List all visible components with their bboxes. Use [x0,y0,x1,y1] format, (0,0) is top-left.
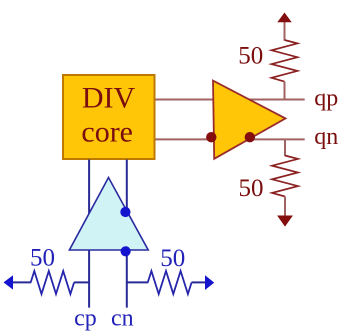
junction dot on qn under buffer [245,132,255,142]
svg-text:core: core [81,116,133,149]
svg-text:50: 50 [238,43,263,70]
svg-text:cn: cn [111,306,134,332]
resistor R1 (50 ohm pull-up on qp) [272,22,298,100]
junction dot on qn at buffer input [206,132,216,142]
resistor R2 (50 ohm pull-down on qn) [272,139,298,216]
junction dot on cn at buffer edge [120,207,130,217]
supply arrow (up) on R1 [277,13,291,23]
wire qn output net [156,138,305,140]
wire cn input net [126,160,128,308]
svg-text:qn: qn [314,124,338,150]
wire cp input net [88,160,90,308]
DIV core block [63,75,155,159]
svg-text:cp: cp [74,306,97,332]
junction dot on cn at buffer base [121,246,131,256]
supply arrow (down) on R2 [277,216,293,227]
termination arrow (left) on R3 [4,275,14,289]
op-amp U2 input buffer [69,178,148,251]
svg-text:DIV: DIV [82,82,136,115]
termination arrow (right) on R4 [205,275,214,290]
svg-text:50: 50 [30,245,55,272]
svg-text:qp: qp [314,86,338,112]
svg-text:50: 50 [239,175,264,202]
resistor R4 (50 ohm termination on cn) [127,271,206,294]
resistor R3 (50 ohm termination on cp) [13,271,90,294]
op-amp U1 output buffer [213,81,286,159]
wire qp output net [156,99,305,101]
svg-text:50: 50 [160,245,185,272]
